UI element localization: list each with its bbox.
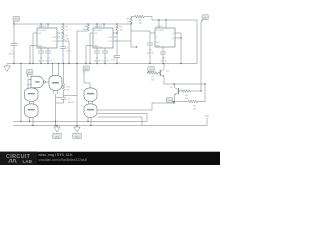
svg-text:C10: C10 (162, 58, 167, 60)
wire U2 OUT right (113, 40, 131, 42)
op-amp U3 divider box (155, 26, 175, 47)
svg-text:nQ: nQ (172, 38, 175, 40)
svg-text:R2: R2 (66, 35, 69, 37)
svg-text:SYN: SYN (167, 101, 172, 103)
svg-text:C5: C5 (66, 48, 69, 50)
ground (4, 64, 10, 72)
wire bus rail 2 (13, 125, 152, 127)
svg-text:100 nF: 100 nF (94, 60, 101, 62)
tube U5 (49, 75, 62, 94)
ground G2 (54, 126, 60, 133)
footer bar (0, 152, 220, 165)
svg-text:GND: GND (156, 46, 161, 48)
tube U7 (25, 88, 39, 102)
svg-text:GND: GND (55, 136, 60, 138)
wire VCC top rail (14, 23, 131, 25)
svg-text:C9: C9 (149, 49, 152, 51)
svg-text:D: D (156, 37, 158, 39)
svg-text:10k: 10k (66, 90, 70, 92)
tube U9 (84, 88, 97, 102)
wire U3 top pins (159, 20, 166, 28)
svg-text:U3 4013: U3 4013 (156, 26, 163, 28)
resistor R10 (62, 64, 71, 93)
op-amp U2 timer box (93, 26, 117, 48)
wire U2 left pins (86, 33, 93, 64)
op-amp U1 timer box (37, 26, 61, 48)
svg-text:GND: GND (205, 116, 210, 118)
svg-text:DIS: DIS (94, 33, 98, 35)
svg-text:1k: 1k (66, 29, 69, 31)
wire U2 OUT up join (131, 24, 150, 47)
svg-text:GND: GND (75, 136, 80, 138)
resistor R6 (131, 15, 146, 25)
wire right drop (196, 20, 198, 64)
svg-text:U2 NE555: U2 NE555 (94, 26, 102, 28)
svg-text:1M: 1M (139, 23, 142, 25)
wire left drop (20, 64, 22, 122)
wire rail2 extension (152, 118, 207, 126)
capacitor C4 (45, 48, 53, 64)
svg-text:CLK: CLK (156, 42, 160, 44)
wire U10 outputs (88, 117, 91, 125)
svg-text:R10: R10 (66, 87, 71, 89)
capacitor C1 (8, 24, 17, 64)
svg-text:1k: 1k (127, 22, 130, 24)
svg-text:1M: 1M (120, 29, 123, 31)
node DGND flag (53, 133, 62, 138)
svg-text:Q1: Q1 (166, 71, 170, 73)
wire U1 DIS to R stack (57, 32, 63, 34)
node OUT flag (201, 15, 208, 22)
svg-text:100 nF: 100 nF (160, 61, 167, 63)
capacitor C3 (38, 48, 45, 64)
svg-text:470: 470 (185, 98, 189, 100)
wire nest L3 (98, 117, 143, 126)
svg-text:100 nF: 100 nF (102, 60, 109, 62)
svg-text:10k: 10k (151, 80, 155, 82)
junction dots bus rails (20, 121, 91, 126)
svg-text:R9: R9 (193, 105, 196, 107)
resistor R5 (127, 17, 133, 24)
wire R3 to long drop (77, 31, 88, 126)
svg-text:DIS: DIS (38, 33, 42, 35)
wire Q1 emitter row (164, 83, 205, 85)
svg-text:100 nF: 100 nF (45, 60, 52, 62)
capacitor C10 (160, 47, 168, 64)
wire U1 OUT right (57, 41, 69, 64)
svg-text:C4: C4 (47, 57, 50, 59)
svg-text:R8: R8 (185, 95, 188, 97)
svg-text:10k: 10k (193, 108, 197, 110)
ground rail (7, 63, 197, 65)
resistor R1 (62, 24, 69, 32)
svg-text:CLK: CLK (149, 69, 154, 71)
wire U4 to U7 stubs (29, 87, 34, 90)
resistor R9 (174, 84, 205, 110)
svg-text:GND CTL: GND CTL (38, 47, 46, 49)
node VCC flag (13, 16, 19, 24)
wire OUT drop (200, 22, 202, 91)
capacitor C5 (60, 41, 72, 64)
node PH2 flag (83, 66, 89, 73)
svg-text:VCC SET: VCC SET (156, 30, 165, 32)
capacitor C9 (147, 31, 155, 64)
resistor R3 (82, 24, 89, 31)
svg-text:10k: 10k (66, 38, 70, 40)
svg-text:Q: Q (173, 33, 175, 35)
svg-text:R6: R6 (139, 20, 142, 22)
resistor R4 (116, 24, 123, 32)
wire U3 right pins (175, 33, 181, 64)
footer logo CIRCUITLAB (6, 154, 33, 164)
svg-text:OUT: OUT (203, 18, 208, 20)
tube U8 (25, 104, 39, 118)
capacitor C6 (94, 48, 101, 64)
wire U2 top pins (97, 24, 104, 28)
wire R10 to x77 branch (64, 92, 78, 96)
wire center tube feeds (53, 64, 59, 76)
resistor R7 (147, 72, 159, 82)
svg-text:C1: C1 (10, 51, 13, 53)
capacitor C7 (102, 48, 110, 64)
svg-text:100 nF: 100 nF (68, 102, 75, 104)
svg-text:100 nF: 100 nF (147, 52, 154, 54)
junction dots top rail (13, 19, 181, 38)
svg-text:OUT: OUT (108, 41, 113, 43)
wire U9 U10 neck (89, 101, 93, 104)
svg-text:C2: C2 (68, 99, 71, 101)
svg-text:C3: C3 (40, 57, 43, 59)
capacitor C8 (110, 32, 120, 64)
svg-text:R1: R1 (66, 26, 69, 28)
node CLK flag (147, 67, 154, 73)
svg-text:10 uF: 10 uF (110, 60, 116, 62)
svg-text:LAB: LAB (23, 159, 33, 164)
svg-text:R4: R4 (120, 26, 123, 28)
capacitor C2 (56, 96, 75, 105)
wire PH2 to tube (84, 73, 90, 89)
resistor R2 (62, 32, 70, 41)
wire R6 to U3 top rail (146, 17, 197, 20)
junction dots ground rail (13, 63, 181, 64)
node PH1 flag (27, 70, 33, 78)
gate U4 nand (28, 76, 46, 88)
svg-text:C6: C6 (96, 57, 99, 59)
svg-text:GND CTL: GND CTL (94, 47, 102, 49)
transistor Q1 (159, 64, 170, 85)
wire U5 out (55, 94, 57, 126)
svg-text:Q2: Q2 (170, 86, 174, 88)
wire U7 U8 neck (30, 101, 34, 104)
svg-text:10 nF: 10 nF (66, 51, 72, 53)
svg-text:THR: THR (52, 37, 56, 39)
wire U4 out (46, 81, 49, 83)
svg-text:C7: C7 (104, 57, 107, 59)
svg-text:U1 NE555: U1 NE555 (38, 26, 46, 28)
svg-text:VCC RST: VCC RST (94, 30, 103, 32)
svg-text:VCC RST: VCC RST (38, 30, 47, 32)
resistor R8 (180, 90, 201, 100)
svg-text:100 nF: 100 nF (38, 60, 45, 62)
svg-text:100 nF: 100 nF (8, 54, 15, 56)
wire nest L1 (98, 103, 175, 110)
wire U2 DIS right (113, 32, 117, 34)
wire bus rail 1 (13, 121, 147, 123)
svg-text:THR: THR (108, 37, 112, 39)
svg-text:OUT: OUT (52, 41, 57, 43)
tube U10 (84, 104, 97, 118)
wire U8 outputs (30, 117, 34, 125)
svg-text:misc_eng / SYS_CLK: misc_eng / SYS_CLK (39, 153, 74, 157)
svg-text:VCC: VCC (14, 19, 19, 21)
transistor Q2 (170, 84, 180, 103)
ground G3 (74, 126, 80, 133)
wire U1 top pins (41, 24, 48, 28)
junction dots right cluster (173, 83, 205, 103)
wire nest L2 (98, 114, 148, 122)
svg-text:circuitlab.com/c/9a45b8ea722ba: circuitlab.com/c/9a45b8ea722ba3f (39, 158, 88, 162)
node AGND flag (73, 133, 82, 138)
wire U1 left pins (30, 33, 37, 64)
svg-text:R7: R7 (151, 77, 154, 79)
node SYNC flag (166, 98, 174, 103)
